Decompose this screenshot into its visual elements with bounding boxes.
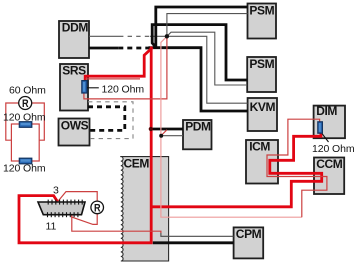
module CCM	[314, 157, 344, 194]
module ICM	[246, 140, 278, 184]
svg-text:120 Ohm: 120 Ohm	[3, 163, 46, 175]
wire DDM thick black: solid then dashed to junction	[89, 47, 118, 50]
svg-text:R: R	[22, 98, 29, 110]
svg-text:120 Ohm: 120 Ohm	[312, 143, 355, 155]
wire red thick bevel junction to SRS resistor	[85, 48, 152, 82]
wire gray thin splice to PSM second	[167, 32, 247, 85]
wire gray thin splice up to PSM top	[167, 14, 248, 37]
wire red thick bottom loop to connector pin 3	[19, 196, 153, 243]
wire DDM thin gray: solid then dashed to splice	[89, 35, 119, 37]
svg-text:11: 11	[46, 221, 57, 233]
junction splice dot (low-speed net)	[165, 34, 169, 38]
ohmmeter R left example	[19, 97, 32, 111]
wire gray thin splice to KVM	[167, 36, 248, 103]
svg-text:60 Ohm: 60 Ohm	[9, 85, 46, 97]
module KVM	[248, 98, 277, 131]
module DIM	[314, 104, 345, 138]
module CEM (scalloped left edge)	[121, 157, 169, 261]
wire red thin splice bevel down to PDM dot	[161, 130, 167, 136]
junction dot PDM thick on red bus	[149, 127, 153, 131]
svg-text:120 Ohm: 120 Ohm	[3, 112, 46, 124]
svg-text:CPM: CPM	[236, 227, 262, 241]
svg-text:DIM: DIM	[316, 104, 337, 118]
connector (OBD) trapezoid with pins	[38, 200, 85, 218]
resistor 120 Ohm in DIM	[318, 122, 323, 133]
wire black thick PDM tap to red bus	[151, 128, 183, 131]
svg-text:SRS: SRS	[62, 63, 86, 77]
svg-text:KVM: KVM	[250, 100, 276, 114]
svg-text:CEM: CEM	[124, 157, 150, 171]
wire black thick dashed SRS to OWS (U shape)	[88, 107, 125, 131]
module PSM (top)	[248, 4, 277, 39]
resistor 120 Ohm left example top	[19, 122, 32, 128]
junction dot PDM thin	[159, 134, 163, 138]
svg-text:120 Ohm: 120 Ohm	[102, 84, 145, 96]
resistor 120 Ohm left example bottom	[19, 158, 32, 164]
wire red thin SRS resistor parallel stub	[86, 78, 141, 80]
wire gray thin PDM tap	[161, 135, 183, 137]
ohmmeter R at connector	[91, 201, 104, 214]
module DDM	[59, 21, 89, 58]
left example: outer loop with ohmmeter	[6, 103, 45, 140]
module PSM (second)	[247, 57, 276, 92]
wire red thin SRS resistor bottom loop to splice	[84, 36, 167, 99]
svg-text:PSM: PSM	[249, 57, 274, 71]
wire red thick main vertical bus	[150, 47, 153, 244]
svg-text:DDM: DDM	[62, 21, 89, 35]
wire black thick bus to CPM	[153, 241, 234, 244]
wire red thick CEM to CCM/ICM/DIM snake	[151, 133, 322, 207]
wire red thin light vertical through CEM and to CCM/DIM snake	[161, 36, 302, 217]
wire red thin connector pin 11 to CEM	[72, 215, 161, 233]
wire red thin connector pin 3 to ohmmeter loop	[58, 192, 98, 225]
wire black thick junction to PSM second	[152, 25, 247, 80]
svg-text:PSM: PSM	[249, 4, 274, 18]
wire gray thin elbow to CPM	[161, 233, 234, 237]
left example: inner loop with two 120 Ohm resistors	[11, 124, 39, 161]
wire gray dashed SRS to OWS (low-speed, U shape)	[88, 102, 133, 139]
module SRS	[60, 63, 88, 110]
svg-text:PDM: PDM	[185, 119, 211, 133]
module OWS	[59, 118, 90, 145]
svg-text:CCM: CCM	[316, 157, 343, 171]
module PDM	[183, 119, 212, 149]
svg-text:ICM: ICM	[249, 140, 270, 154]
wire black thick junction to KVM	[149, 48, 248, 111]
svg-text:R: R	[94, 202, 101, 214]
wire black thick junction up to PSM top	[156, 7, 248, 48]
svg-text:OWS: OWS	[61, 118, 89, 132]
label pointer DIM 120 Ohm	[322, 134, 328, 142]
svg-text:3: 3	[53, 185, 59, 197]
module CPM	[234, 227, 264, 258]
label pointer SRS 120 Ohm	[87, 87, 99, 89]
resistor 120 Ohm in SRS	[82, 81, 87, 93]
